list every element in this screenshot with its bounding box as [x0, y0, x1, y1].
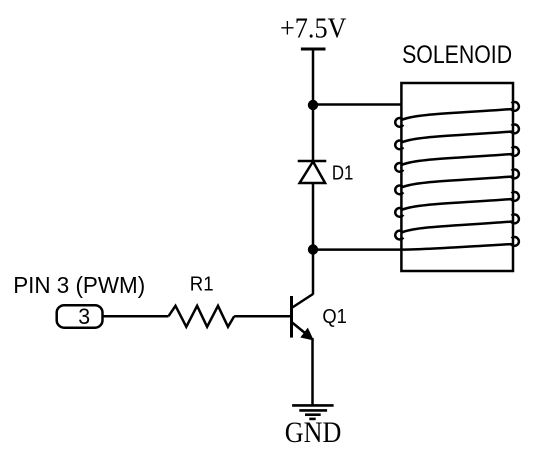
wire: port to resistor R1	[103, 315, 169, 318]
svg-text:3: 3	[78, 304, 90, 329]
solenoid winding turn 6	[395, 215, 519, 240]
solenoid winding turn 3	[395, 147, 519, 172]
resistor R1	[169, 306, 235, 327]
port pin 3 box	[57, 305, 103, 328]
collector diagonal	[292, 294, 314, 308]
wire: diode anode down to lower junction and collector bend	[312, 183, 315, 295]
svg-text:+7.5V: +7.5V	[280, 13, 347, 45]
solenoid winding turn 5	[395, 192, 519, 217]
wire: lower junction to solenoid (continues as last winding)	[313, 237, 519, 250]
svg-text:Q1: Q1	[322, 306, 347, 328]
svg-text:D1: D1	[332, 162, 354, 184]
svg-text:SOLENOID: SOLENOID	[402, 41, 512, 69]
solenoid winding turn 1	[395, 102, 519, 127]
solenoid winding turn 2	[395, 125, 519, 150]
diode D1	[298, 161, 327, 183]
power rail bar +7.5V	[301, 48, 326, 51]
wire: +7.5V rail down to diode cathode	[312, 49, 315, 161]
ground	[292, 405, 334, 419]
junction node: collector/solenoid top	[308, 100, 318, 110]
junction node: diode/solenoid bottom/collector	[308, 244, 318, 254]
svg-text:R1: R1	[190, 274, 214, 296]
svg-text:GND: GND	[285, 416, 342, 449]
wire: top junction to solenoid	[313, 103, 401, 106]
wire: emitter down to ground	[311, 338, 314, 405]
solenoid body box	[401, 83, 513, 271]
wire: resistor to transistor base	[234, 315, 290, 318]
emitter arrowhead	[301, 329, 313, 340]
emitter diagonal	[292, 322, 311, 338]
base bar	[290, 296, 293, 338]
transistor Q1	[292, 294, 314, 340]
solenoid winding turn 4	[395, 170, 519, 195]
svg-text:PIN 3 (PWM): PIN 3 (PWM)	[13, 272, 145, 298]
